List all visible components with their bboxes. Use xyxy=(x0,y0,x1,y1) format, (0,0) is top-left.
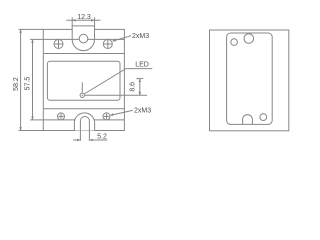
side view bottom hole xyxy=(260,114,267,121)
screw top-right xyxy=(103,40,112,49)
svg-text:8.6: 8.6 xyxy=(130,82,137,92)
svg-text:2xM3: 2xM3 xyxy=(132,33,149,40)
dim 12.3 arrows xyxy=(72,19,95,22)
svg-text:57.5: 57.5 xyxy=(25,77,32,91)
top band line xyxy=(43,53,124,55)
tab hole xyxy=(79,34,88,43)
side view inner outline xyxy=(227,33,273,124)
label window rounded rect xyxy=(47,61,120,100)
dim 58.2 extension lines xyxy=(19,29,44,130)
screw top-left xyxy=(54,40,63,49)
leader 2xM3 bottom xyxy=(111,110,133,115)
leader 2xM3 top xyxy=(113,36,131,41)
bottom slot xyxy=(80,117,89,141)
dim 12.3 line xyxy=(66,19,100,21)
dim 12.3 extension ticks xyxy=(72,17,94,26)
screw bottom-left xyxy=(58,113,65,120)
side view bottom notch xyxy=(243,115,253,125)
bottom band line xyxy=(43,108,124,110)
dim 57.5 arrows xyxy=(31,39,34,120)
dim 5.2 arrows xyxy=(77,139,93,142)
screw bottom-right xyxy=(103,113,110,120)
dim 8.6 line xyxy=(139,79,141,96)
svg-text:5.2: 5.2 xyxy=(97,133,107,140)
LED indicator xyxy=(80,93,84,97)
dim 5.2 lines xyxy=(73,139,107,141)
extension line 57.5 top xyxy=(30,38,124,40)
LED centerline xyxy=(81,82,83,93)
extension line 57.5 bottom xyxy=(30,119,124,121)
svg-text:58.2: 58.2 xyxy=(13,77,20,91)
dim 57.5 line xyxy=(32,39,34,120)
mounting tab top xyxy=(72,26,94,51)
dim 8.6 tick xyxy=(136,78,143,80)
side view outer outline xyxy=(210,30,289,131)
svg-text:2xM3: 2xM3 xyxy=(134,107,151,114)
side view small hole xyxy=(231,39,238,46)
dim 8.6 arrows xyxy=(139,78,142,96)
svg-text:LED: LED xyxy=(135,61,149,68)
dim 58.2 line xyxy=(20,29,22,130)
LED extension line xyxy=(85,94,148,96)
LED leader line xyxy=(84,69,152,94)
dim 58.2 arrows xyxy=(19,29,22,131)
side view large hole xyxy=(244,34,254,44)
body outline front view xyxy=(43,29,124,130)
bottom tab arch xyxy=(74,113,94,131)
svg-text:12.3: 12.3 xyxy=(77,14,91,21)
